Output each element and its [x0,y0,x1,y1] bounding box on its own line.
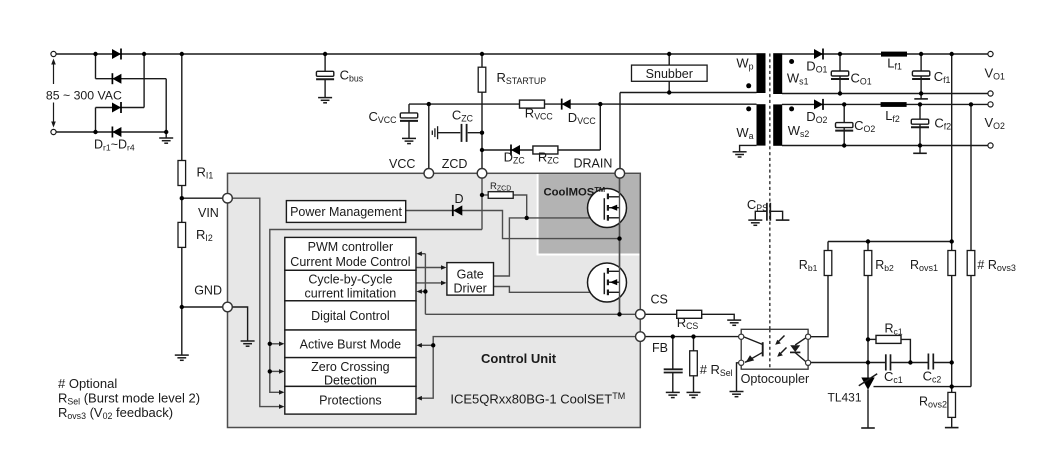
diode Dvcc [562,99,571,110]
arrow into Active Burst Mode from FB [416,343,422,348]
wire bridge row 2 [96,78,167,80]
arrow into Gate Driver input 1 [441,265,447,270]
wire snubber bottom [668,81,670,92]
wire VCC pin drop [428,104,430,169]
wire Co1 branch [839,54,841,94]
capacitor Cf1 [912,71,930,79]
wire MOSFET drain-source vertical [619,178,621,315]
svg-text:GND: GND [194,283,222,297]
wire Cf1 branch [920,54,922,99]
svg-text:Zero Crossing: Zero Crossing [311,360,390,374]
wire arrow stub into PWM controller [420,253,426,255]
MAIN-WIRES [54,54,988,428]
wire Rstartup-ZCD vertical [481,54,483,169]
capacitor Co1 [831,71,849,79]
ground Cbus [318,98,332,103]
node VCC branch junction [427,102,431,106]
wire bridge vertical right to ground [165,79,167,138]
wire Czc row right [468,132,482,134]
wire Rsel to ground [693,376,695,392]
diode Dr4 [112,127,121,138]
node Rb2 top junction [866,239,870,243]
svg-text:CS: CS [651,292,668,306]
node Co2 top junction [842,102,846,106]
node GND divider junction [180,305,184,309]
wire Rsel top lead [693,337,695,351]
resistor Rb2 [864,251,872,276]
INTERNAL-WIRES of controller [232,178,636,407]
capacitor Cps [767,203,770,221]
svg-text:TL431: TL431 [828,391,862,405]
ground Rovs2 [945,427,959,429]
ground Cps secondary [776,219,790,221]
pin VCC [424,169,434,179]
node Rzcd gate junction [525,216,529,220]
transistor M2 sense MOSFET [588,263,627,302]
optocoupler pin top-left [739,334,744,339]
AC input terminal top [51,51,56,56]
wire Rovs3 lower vertical [970,276,972,387]
svg-text:Driver: Driver [454,281,487,295]
wire Gate Driver upper output to M1 gate [494,218,605,276]
wire Cycle-by-Cycle to Gate Driver input 2 [416,282,444,284]
svg-text:D: D [455,192,464,206]
output terminal Vo2 plus [988,102,993,107]
ground Cf1 [914,98,928,100]
capacitor Cc1 [886,354,891,370]
wire Czc row [438,132,461,134]
polarity dot Wa [746,106,751,111]
wire ZCD bus arrow stub to Zero Crossing Detection [270,370,282,372]
node ZCD bus ZC junction [268,369,272,373]
diode Do1 [814,49,823,60]
wire aux winding top [600,103,756,105]
node Co1 top junction [838,52,842,56]
node ZCD bus ABM junction [268,342,272,346]
wire secondary2 bottom rail [782,145,988,147]
wire secondary1 bottom rail [782,93,988,95]
node Vo2 sense junction [969,102,973,106]
svg-text:ZCD: ZCD [442,157,468,171]
node Czc junction on ZCD line [480,131,484,135]
ground Cvcc [402,138,416,143]
node Rsel junction [691,334,695,338]
IC block ICE5QRxx80BG-1 body [228,173,641,427]
pin CS [636,310,646,320]
wire Wa bottom to ground [740,145,757,151]
wire bridge vertical left lower [95,108,97,133]
wire Rzcd left stub [482,194,488,196]
wire Dvcc junction drop [599,104,601,150]
block Digital Control [285,301,416,330]
wire CS internal row [425,313,636,315]
node bridge bottom-left junction [93,130,97,134]
capacitor Cf2 [911,119,929,127]
wire ZCD internal to left bus [270,230,482,393]
arrow into Zero Crossing Detection from ZCD bus [279,369,285,374]
wire Co2 branch [843,104,845,145]
wire Cvcc branch [408,104,410,113]
wire Gate Driver lower output to M2 gate [494,287,605,293]
output terminal Vo1 minus [988,91,993,96]
diode Do2 [814,99,823,110]
wire GND pin to ground [232,307,248,341]
wire bridge row 3 [96,107,145,109]
svg-text:Digital Control: Digital Control [311,309,390,323]
svg-text:# Optional: # Optional [58,376,117,391]
ground Wa [733,152,747,157]
wire FB filter cap to ground [672,373,674,393]
wire RI2 vertical to ground [181,198,183,355]
AC range arrow upper [53,63,55,84]
wire Cbus to ground [324,79,326,98]
ground GND pin [241,341,255,346]
node Rc1-Cc1 junction [908,360,912,364]
optocoupler LED [790,338,806,362]
wire feedback top bus [828,241,952,243]
ground Rcs [727,320,741,325]
resistor Rvcc [520,100,545,108]
node Cc2 right junction [950,360,954,364]
wire FB arrow stub into Active Burst Mode [420,344,434,346]
wire Vo1 sense vertical [951,54,953,251]
svg-text:Detection: Detection [324,373,377,387]
resistor Rcs [677,310,702,318]
wire arrow stub into Cycle-by-Cycle [420,291,426,293]
wire compensation row right [934,362,952,364]
diode Dr3 [112,102,121,113]
node Cf1 top junction [919,52,923,56]
wire FB filter cap branch [672,337,674,370]
node Dvcc aux junction [598,102,602,106]
arrow into PWM controller from CS [416,251,422,256]
polarity dot Ws2 [789,106,794,111]
wire Cbus branch [324,54,326,71]
resistor Rb1 [824,251,832,276]
ground Cf2 [913,152,927,154]
resistor RI2 [178,222,186,247]
wire Cvcc to ground [408,121,410,138]
capacitor FB filter [664,369,683,372]
wire compensation row mid [891,362,928,364]
transformer secondary winding Ws1 bar [773,53,782,94]
inductor Lf1 [881,52,907,57]
capacitor Cvcc [400,113,418,121]
wire top bus rail [54,53,757,55]
svg-text:VCC: VCC [389,157,415,171]
TL431 shunt regulator [859,374,877,390]
polarity dot Wp [746,83,751,88]
node Co2 bottom junction [842,143,846,147]
svg-text:Active Burst Mode: Active Burst Mode [300,337,401,351]
arrow into Active Burst Mode from ZCD bus [279,342,285,347]
optocoupler pin top-right [806,334,811,339]
wire AC bottom rail [54,131,167,133]
ground Cps primary [748,220,762,225]
block PWM controller Current Mode Control [285,237,416,270]
resistor Rsel [690,351,698,376]
resistor Rovs3 [967,251,975,276]
node Cf1 bottom junction [919,91,923,95]
node Cf2 bottom junction [918,143,922,147]
wire VCC row (Rvcc/Dvcc) [409,103,600,105]
resistor Rstartup [478,67,486,92]
transformer primary winding Wp bar [757,53,766,93]
node snubber tap on bus [667,52,671,56]
wire current sense feedback vertical [424,254,426,315]
diode Dzc [511,145,520,156]
wire Rc1 right bend [901,339,910,362]
resistor Rc1 [876,335,901,343]
svg-text:Control Unit: Control Unit [481,351,557,366]
wire Rcs to ground [702,314,735,320]
node Rzcd tap on ZCD line [480,193,484,197]
svg-text:Protections: Protections [319,393,382,407]
node FB filter junction [671,334,675,338]
wire Cf2 branch [919,104,921,153]
resistor RI1 [178,161,186,186]
diode Dr1 [112,49,121,60]
svg-text:FB: FB [652,341,668,355]
ground TL431 [861,427,875,429]
wire Rovs2 to ground [951,417,953,428]
node VIN divider junction [180,196,184,200]
node bridge bottom-right junction [164,130,168,134]
svg-text:current limitation: current limitation [305,287,397,301]
pin VIN [223,193,233,203]
svg-text:PWM controller: PWM controller [308,240,393,254]
node bridge top-left junction [93,52,97,56]
arrow into Protections from VIN line [279,404,285,409]
capacitor Cbus [316,71,334,79]
node bridge top-mid junction [142,52,146,56]
arrow into Protections from FB [416,396,422,401]
wire PWM to Gate Driver input 1 [416,267,444,269]
ground optocoupler LED [730,392,744,397]
node RI1 tap on bus [180,52,184,56]
svg-text:Optocoupler: Optocoupler [741,372,810,386]
node snubber bottom junction [667,90,671,94]
AC input terminal bottom [51,129,56,134]
svg-text:85 ~ 300 VAC: 85 ~ 300 VAC [46,88,122,102]
node Cbus tap on bus [323,52,327,56]
block Protections [285,386,416,414]
svg-text:VIN: VIN [198,206,219,220]
wire Vo2 sense vertical [970,104,972,250]
diode Dr2 [112,73,121,84]
capacitor Co2 [835,123,853,131]
Gate Driver box [447,263,494,296]
svg-text:Power Management: Power Management [290,205,402,219]
ground bridge rectifier [159,138,173,143]
ground Czc sideways [432,126,437,139]
wire Rc1 left stub [868,338,876,340]
svg-text:Current Mode Control: Current Mode Control [290,255,410,269]
transformer secondary winding Ws2 bar [773,104,782,145]
node FB burst branch junction [431,343,435,347]
svg-text:DRAIN: DRAIN [574,157,613,171]
wire VIN internal to Protections [232,198,282,406]
polarity dot Ws1 [789,59,794,64]
diode D internal [453,205,463,216]
inductor Lf2 [881,102,907,107]
wire FB internal row [420,337,637,399]
wire Rb1 bottom to optocoupler [811,276,828,337]
node Dzc junction on ZCD line [480,148,484,152]
ground RI2 leg [175,355,189,360]
wire secondary1 top rail [782,53,988,55]
node Rstartup tap on bus [480,52,484,56]
resistor Rzcd [488,192,513,199]
ground FB filter [666,392,680,397]
resistor Rovs1 [948,251,956,276]
node Co1 bottom junction [838,91,842,95]
node Vo1 sense junction [950,52,954,56]
isolation barrier dashed line [769,54,771,370]
node M1 source M2 drain junction [617,236,621,240]
transformer aux winding Wa bar [757,104,766,145]
isolation dashes through optocoupler [769,329,771,369]
wire TL431 cathode-anode [867,390,869,429]
AC range arrow lower [53,103,55,124]
pin ZCD [477,169,487,179]
node M2 source CS junction [617,312,621,316]
resistor Rzc [533,146,558,154]
node TL431 cathode junction [866,360,870,364]
transistor M1 CoolMOS [588,189,627,228]
wire Power Management diode row [406,211,620,239]
ground Rsel [687,392,701,397]
wire compensation row left [811,362,886,364]
wire optocoupler LED cathode to ground [737,363,739,392]
wire FB external row [645,336,739,338]
wire bridge vertical left upper [95,54,97,79]
wire Cps right leg [770,211,782,220]
wire Rb2 bottom vertical [867,276,869,378]
optocoupler phototransistor [744,337,763,363]
pin FB [636,332,646,342]
resistor Rovs2 [948,392,956,417]
block Cycle-by-Cycle current limitation [285,270,416,301]
CoolMOS shaded region [539,174,640,253]
wire Rb2 top lead [867,242,869,251]
wire Rzcd right bend to gate node [513,195,527,218]
Optocoupler box [741,329,808,369]
pin GND [223,302,233,312]
arrow into Gate Driver input 2 [441,281,447,286]
wire ZCD bus arrow stub to Active Burst Mode [270,343,282,345]
wire Rb1 top lead [827,242,829,251]
Power Management box [286,201,405,223]
wire CS external row [645,313,677,315]
Snubber box [632,65,708,81]
output terminal Vo2 minus [988,143,993,148]
node CS feedback branch junction [423,289,427,293]
wire bridge vertical mid [143,54,145,108]
svg-text:Snubber: Snubber [646,67,693,81]
pin DRAIN [615,169,625,179]
node TL431 ref divider junction [950,384,954,388]
node Cf2 top junction [918,102,922,106]
svg-text:Gate: Gate [457,267,484,281]
output terminal Vo1 plus [988,51,993,56]
wire TL431 ref line [874,386,972,388]
node Rc1 left junction [866,337,870,341]
wire DRAIN riser [619,93,621,170]
wire primary bottom [620,92,757,94]
svg-text:Cycle-by-Cycle: Cycle-by-Cycle [308,273,392,287]
optocoupler pin bottom-right [806,360,811,365]
wire Dzc Rzc row [482,149,600,151]
capacitor Cc2 [928,354,933,370]
redraw drain vertical through MOSFET circles [619,178,621,315]
block Zero Crossing Detection [285,358,416,387]
wire VIN stub [182,197,224,199]
optocoupler pin bottom-left [739,360,744,365]
arrow into Cycle-by-Cycle from CS [416,289,422,294]
optocoupler light arrows [778,336,787,355]
wire secondary2 top rail [782,103,988,105]
node Rovs1 top junction [950,239,954,243]
capacitor Czc [462,124,467,142]
wire RI1 branch vertical [181,54,183,198]
wire Rovs1 Rovs2 chain [951,276,953,393]
block Active Burst Mode [285,330,416,358]
wire GND stub [182,306,224,308]
wire snubber top [668,54,670,65]
svg-text:ICE5QRxx80BG-1 CoolSETTM: ICE5QRxx80BG-1 CoolSETTM [450,391,625,407]
wire Cps left leg [755,211,767,220]
arrow into Protections from ZCD bus [279,390,285,395]
wire ZCD pin drop internal [481,178,483,230]
